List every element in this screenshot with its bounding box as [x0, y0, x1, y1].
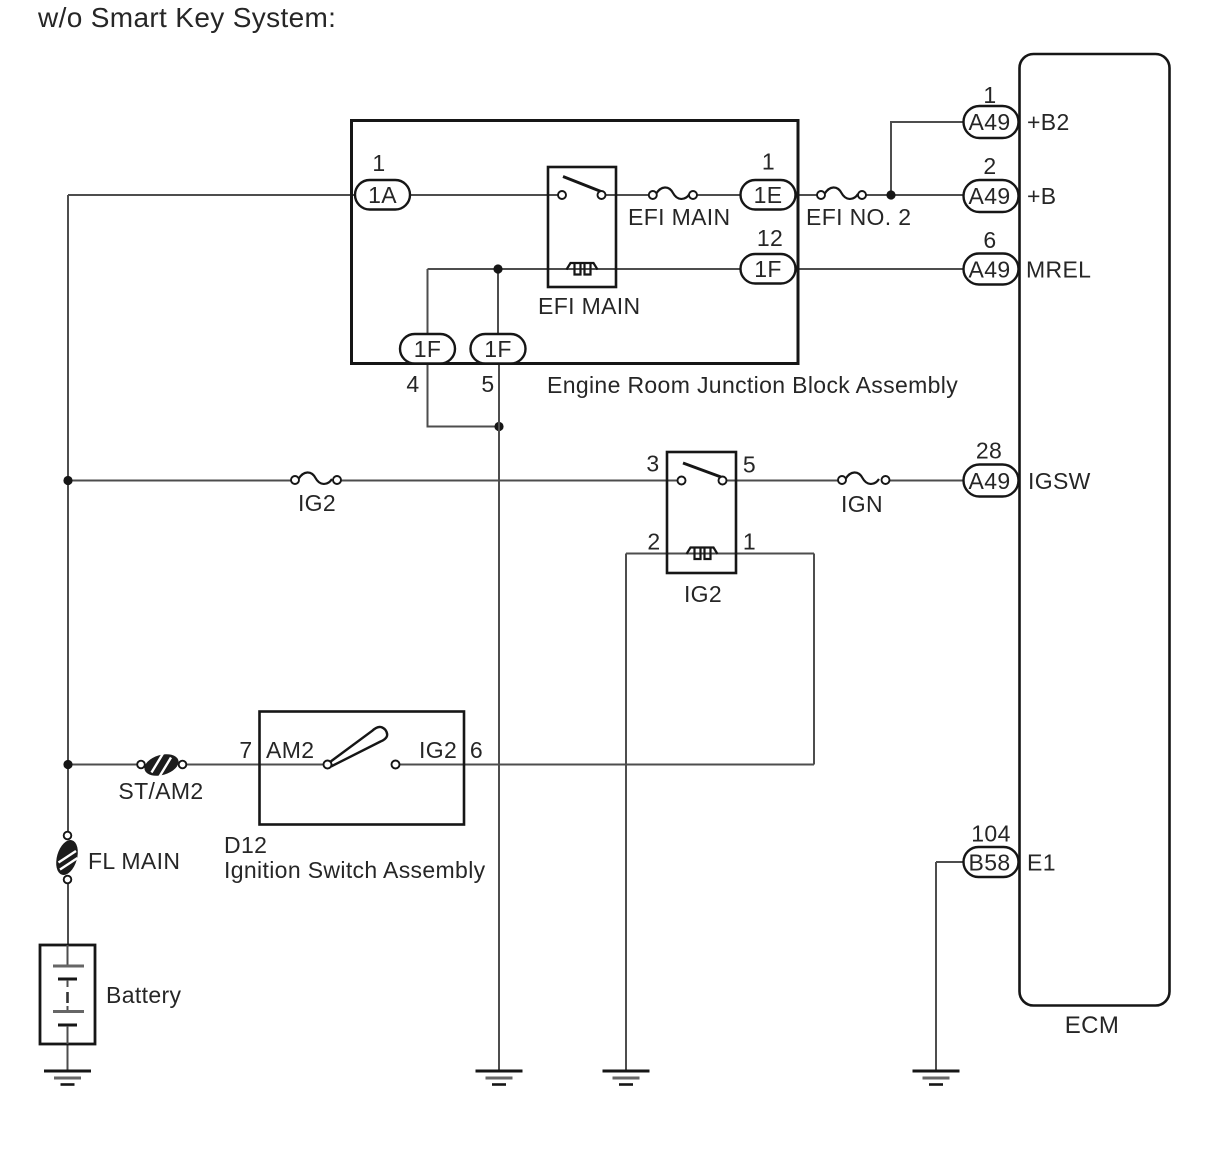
wire: left rail from FL MAIN to battery: [67, 884, 69, 947]
ECM box: [1020, 54, 1170, 1006]
svg-text:4: 4: [406, 371, 419, 397]
relay EFI MAIN coil: [567, 263, 598, 270]
node: junction at EFI NO.2 output: [886, 190, 895, 199]
svg-text:ST/AM2: ST/AM2: [118, 778, 203, 804]
svg-text:3: 3: [646, 451, 659, 477]
svg-text:IG2: IG2: [298, 490, 336, 516]
wire: left rail x=68 from top corner down to FL MAIN: [67, 195, 69, 832]
fuse IG2: [291, 472, 341, 516]
relay IG2 switch blade: [683, 463, 721, 477]
svg-text:Engine Room Junction Block Ass: Engine Room Junction Block Assembly: [547, 372, 958, 398]
wire: IG2 relay coil row y=553.5: [626, 553, 814, 555]
svg-text:D12: D12: [224, 832, 267, 858]
wire: E1 ground drop: [935, 862, 937, 1070]
wire: ECM E1 to ground drop: [936, 861, 975, 863]
wire: ignition switch IG2 output to IG2 relay coil drop: [400, 764, 815, 766]
svg-text:A49: A49: [969, 468, 1011, 494]
wire: branch up to ECM +B2: [891, 122, 970, 195]
svg-text:1F: 1F: [754, 256, 782, 282]
svg-text:5: 5: [481, 371, 494, 397]
svg-text:IGSW: IGSW: [1028, 468, 1091, 494]
wire: 1F pin5 line down to ground: [498, 362, 500, 1070]
svg-text:5: 5: [743, 452, 756, 478]
svg-text:+B: +B: [1027, 183, 1056, 209]
battery: [40, 945, 181, 1044]
wire: AM2 row y=764.5 left rail to ST/AM2 link: [68, 764, 137, 766]
battery plate long 1: [53, 965, 84, 968]
relay EFI MAIN contact right: [598, 191, 606, 199]
connector 1F pin12: [741, 225, 796, 284]
svg-text:B58: B58: [969, 850, 1011, 876]
svg-text:Battery: Battery: [106, 982, 181, 1008]
battery dashed middle: [66, 992, 69, 1003]
relay IG2: [646, 451, 756, 608]
svg-text:1: 1: [372, 150, 385, 176]
ground: ECM E1: [913, 1071, 960, 1085]
wire: IG2 relay coil pin2 down to ground: [625, 554, 627, 1071]
connector A49 +B2: [964, 82, 1070, 138]
ground: battery: [44, 1071, 91, 1085]
svg-text:FL MAIN: FL MAIN: [88, 848, 180, 874]
junction block: Engine Room Junction Block Assembly: [352, 121, 799, 364]
svg-text:Ignition Switch Assembly: Ignition Switch Assembly: [224, 857, 486, 883]
svg-text:7: 7: [239, 737, 252, 763]
wire: battery positive rail y=195 from left rail to EFI MAIN relay: [68, 194, 558, 196]
fusible link ST/AM2: [118, 751, 203, 804]
svg-text:1: 1: [743, 529, 756, 555]
connector 1F pin5: [471, 334, 526, 397]
svg-text:28: 28: [976, 438, 1002, 464]
node: junction on coil wire above 1F pin5: [493, 264, 502, 273]
wire: battery negative to ground: [67, 1044, 69, 1070]
svg-text:IG2: IG2: [419, 737, 457, 763]
svg-text:IG2: IG2: [684, 581, 722, 607]
node: junction on left rail at IGSW row: [63, 476, 72, 485]
svg-text:ECM: ECM: [1065, 1012, 1119, 1039]
wire: relay output to EFI MAIN fuse: [605, 194, 649, 196]
connector A49 IGSW: [964, 438, 1091, 497]
relay IG2 coil: [687, 548, 718, 555]
svg-text:6: 6: [470, 737, 483, 763]
ignition switch lever: [330, 727, 387, 766]
node: junction on left rail at AM2 row: [63, 760, 72, 769]
relay IG2 contact pin3: [678, 477, 686, 485]
svg-text:MREL: MREL: [1026, 257, 1091, 283]
wire: MREL row y=269 relay coil to 1F: [428, 268, 761, 270]
fuse IGN: [838, 472, 890, 517]
wire: 1F(12) to ECM MREL: [798, 268, 963, 270]
svg-text:1A: 1A: [368, 182, 397, 208]
wire: drop from coil wire to 1F pin5 oval: [497, 269, 499, 336]
wire: ST/AM2 link to ignition switch AM2 contact: [187, 764, 324, 766]
svg-text:+B2: +B2: [1027, 109, 1070, 135]
fuse EFI NO. 2: [806, 187, 911, 230]
svg-text:1F: 1F: [414, 336, 442, 362]
ground: junction block pin5 line: [476, 1071, 523, 1085]
wire: IG2 relay coil pin1 down to ignition switch output row: [813, 554, 815, 765]
relay EFI MAIN (in junction block): [538, 167, 640, 319]
relay EFI MAIN switch blade: [563, 177, 601, 192]
svg-text:EFI NO. 2: EFI NO. 2: [806, 204, 911, 230]
svg-text:EFI MAIN: EFI MAIN: [628, 204, 730, 230]
connector 1A: [355, 150, 410, 210]
connector 1F pin4: [400, 334, 455, 397]
connector 1E: [741, 149, 796, 210]
svg-text:EFI MAIN: EFI MAIN: [538, 293, 640, 319]
relay IG2 contact pin5: [719, 477, 727, 485]
battery plate short 2: [58, 1024, 77, 1027]
svg-text:AM2: AM2: [266, 737, 314, 763]
svg-text:1E: 1E: [754, 182, 783, 208]
svg-text:A49: A49: [969, 183, 1011, 209]
fuse EFI MAIN: [628, 187, 730, 230]
battery plate long 2: [53, 1010, 84, 1013]
svg-text:1: 1: [762, 149, 775, 175]
svg-text:E1: E1: [1027, 850, 1056, 876]
svg-text:w/o Smart Key System:: w/o Smart Key System:: [37, 2, 336, 33]
svg-text:6: 6: [983, 227, 996, 253]
svg-text:12: 12: [757, 225, 783, 251]
wire: 1F pin4 down and over to pin5 line: [428, 362, 500, 427]
wire: EFI MAIN fuse to 1E and EFI NO.2 fuse: [697, 194, 817, 196]
battery plate short 1: [58, 978, 77, 981]
svg-text:1: 1: [983, 82, 996, 108]
wire: IGSW row y=480.5 left rail to IG2 fuse: [68, 480, 291, 482]
svg-text:1F: 1F: [484, 336, 512, 362]
ignition switch contact IG2: [392, 761, 400, 769]
svg-text:2: 2: [647, 529, 660, 555]
wire: IG2 relay to IGN fuse: [727, 480, 839, 482]
relay EFI MAIN contact left: [558, 191, 566, 199]
connector B58 E1: [964, 821, 1056, 878]
svg-text:2: 2: [983, 153, 996, 179]
connector A49 +B: [964, 153, 1057, 212]
svg-text:A49: A49: [969, 109, 1011, 135]
wire: IGN fuse to ECM IGSW: [890, 480, 976, 482]
ground: IG2 relay coil: [603, 1071, 650, 1085]
ignition switch assembly D12: [224, 712, 486, 884]
svg-text:IGN: IGN: [841, 491, 883, 517]
wire: IG2 fuse to IG2 relay: [341, 480, 678, 482]
ignition switch contact AM2: [324, 761, 332, 769]
svg-text:104: 104: [971, 821, 1010, 847]
battery top lead: [67, 945, 69, 965]
fusible link FL MAIN: [52, 832, 180, 884]
connector A49 MREL: [964, 227, 1092, 285]
node: junction of pin4 jog with pin5 ground line: [494, 422, 503, 431]
wire: drop from coil wire to 1F pin4 oval: [427, 269, 429, 336]
svg-text:A49: A49: [969, 257, 1011, 283]
wire: EFI NO.2 fuse to ECM +B: [867, 194, 964, 196]
